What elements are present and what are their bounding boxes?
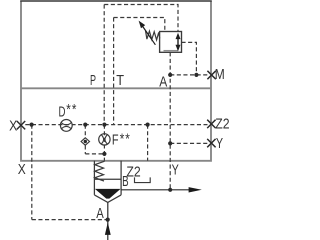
wire: bottom drain to A line <box>32 219 108 221</box>
main valve poppet <box>95 189 121 199</box>
B flow arrow <box>189 187 202 192</box>
wire: check valve chain vertical <box>84 125 86 154</box>
wire: Y port line <box>170 142 207 144</box>
svg-text:Y: Y <box>216 134 223 151</box>
wire: pilot T top route to relief valve <box>114 18 165 32</box>
wire: A port line <box>107 202 109 240</box>
wire: check valve bottom horizontal <box>85 153 104 155</box>
svg-text:M: M <box>215 66 225 83</box>
wire: pilot P top route to relief valve <box>104 5 178 32</box>
port Z2 marker <box>207 120 215 128</box>
relief valve adjustment arrow <box>139 21 156 45</box>
svg-text:P: P <box>90 71 96 88</box>
svg-text:*: * <box>125 130 130 147</box>
wire: relief valve side port to M <box>182 42 197 75</box>
svg-text:Y: Y <box>172 161 179 178</box>
svg-text:Z2: Z2 <box>215 115 229 131</box>
orifice plug F** <box>99 134 110 145</box>
svg-text:F: F <box>112 131 119 148</box>
A flow arrow <box>105 222 111 235</box>
svg-text:X: X <box>18 161 26 178</box>
svg-text:A: A <box>96 205 104 222</box>
orifice D** <box>60 120 72 132</box>
main valve spring <box>95 161 105 181</box>
check valve <box>81 138 89 145</box>
wire: X drain down-left <box>31 125 33 220</box>
svg-text:*: * <box>66 101 71 118</box>
svg-text:*: * <box>72 101 77 118</box>
port M marker <box>207 71 215 79</box>
wire: B port line <box>121 189 189 191</box>
manifold block outline <box>21 1 211 161</box>
port X marker <box>17 121 25 129</box>
port Y marker <box>207 139 215 147</box>
main cartridge valve body <box>94 161 121 203</box>
pilot relief valve body <box>160 32 182 53</box>
wire: pilot P vertical riser <box>103 5 105 125</box>
wire: pilot line X horizontal <box>25 124 207 126</box>
relief valve flow arrow <box>176 33 181 52</box>
wire: pilot T vertical riser <box>113 18 115 125</box>
wire: F orifice chain vertical <box>103 125 105 161</box>
wire: Z2 branch vertical <box>147 125 149 161</box>
relief valve spring <box>146 31 160 40</box>
svg-text:A: A <box>159 73 168 90</box>
Z2 internal port bracket <box>135 177 151 182</box>
svg-text:B: B <box>122 173 129 190</box>
mounting face line P/T <box>21 87 211 89</box>
svg-text:D: D <box>59 103 66 120</box>
svg-text:X: X <box>9 118 17 134</box>
wire: relief valve bottom to A/Y/B vertical <box>169 52 171 190</box>
svg-text:T: T <box>116 71 124 88</box>
svg-text:*: * <box>120 130 125 147</box>
wire: M port line <box>170 74 207 76</box>
